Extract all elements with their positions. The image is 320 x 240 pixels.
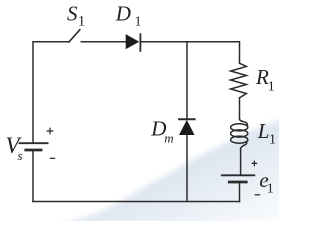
wire: Dm anode to bottom junction [186, 135, 188, 202]
svg-text:s: s [18, 148, 23, 163]
wire: left vertical lower (Vs - plate to bottom-left corner) [32, 150, 34, 201]
inductor L1 coil entry curve [240, 119, 248, 125]
inductor L1 coil exit curve [241, 142, 247, 149]
svg-text:1: 1 [135, 15, 142, 30]
resistor R1 zigzag [231, 63, 247, 98]
label S1 [67, 1, 85, 29]
wire: bottom horizontal (bottom-right corner to bottom-left corner) [33, 201, 240, 203]
svg-text:1: 1 [268, 79, 275, 94]
battery Vs long (+) plate [20, 142, 48, 144]
label D1 [115, 1, 142, 29]
svg-text:1: 1 [269, 132, 276, 147]
svg-text:D: D [115, 1, 131, 25]
inductor L1 loop 3 [231, 136, 248, 143]
polarity - of Vs [50, 157, 55, 159]
inductor L1 loop 2 [231, 130, 248, 137]
label R1 [255, 65, 275, 95]
battery e1 short (-) plate [229, 181, 246, 184]
battery e1 long (+) plate [222, 174, 255, 176]
svg-text:1: 1 [78, 14, 86, 30]
svg-text:L: L [257, 119, 270, 143]
diode Dm triangle (pointing up) [179, 120, 195, 135]
svg-text:1: 1 [267, 182, 274, 197]
wire: e1 - plate to bottom-right corner [239, 182, 241, 202]
polarity + of e1 [252, 161, 258, 167]
wire: switch S1 to diode D1 anode [81, 41, 125, 43]
background swoosh (decorative) [56, 118, 285, 224]
label L1 [257, 119, 276, 148]
wire: middle branch from top junction to Dm cathode [186, 42, 188, 119]
wire: L1 to battery e1 + plate [240, 149, 242, 175]
switch S1 (open blade) [69, 30, 80, 42]
polarity - of e1 [255, 194, 261, 196]
label e1 [259, 168, 273, 196]
wire: R1 to inductor L1 [239, 98, 241, 119]
label Dm [150, 117, 173, 146]
svg-text:S: S [67, 1, 78, 25]
diode D1 triangle [126, 34, 140, 49]
wire: left vertical upper (Vs + terminal to top-left corner) [33, 42, 69, 143]
diode Dm cathode bar [179, 118, 195, 120]
polarity + of Vs [47, 128, 54, 135]
label Vs [6, 133, 23, 163]
diode D1 cathode bar [139, 34, 141, 51]
svg-text:m: m [164, 131, 173, 146]
wire: D1 cathode to top-right corner through top junction [140, 42, 239, 64]
inductor L1 loop 1 [231, 124, 248, 131]
battery Vs short (-) plate [26, 149, 41, 152]
